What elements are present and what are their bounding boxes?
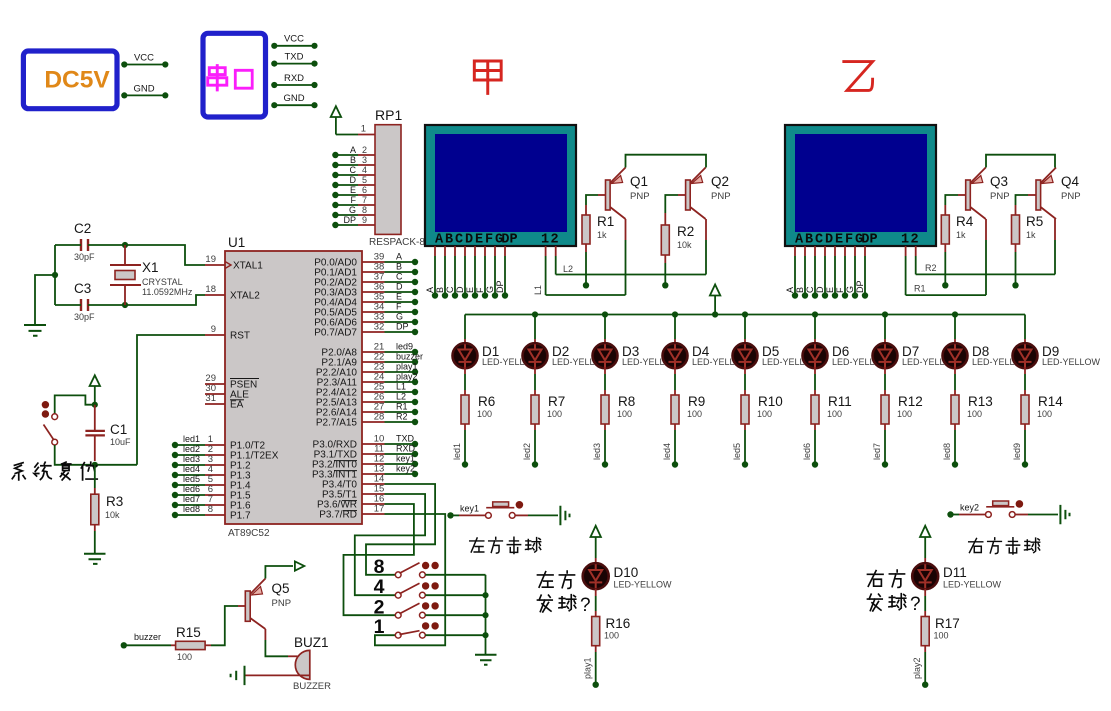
wire R1 top to Q1 base <box>585 205 587 215</box>
svg-text:key2: key2 <box>396 464 415 474</box>
7-segment display block A (jia) <box>425 125 576 246</box>
serial pin RXD wire <box>274 84 314 86</box>
wire bus to D6 <box>814 315 816 340</box>
wire node to R3 <box>94 465 96 488</box>
svg-text:D11: D11 <box>943 565 967 580</box>
display A pin G wire <box>494 246 496 256</box>
display A pin D wire <box>464 246 466 256</box>
svg-text:5: 5 <box>362 175 367 185</box>
svg-text:key1: key1 <box>460 504 479 514</box>
svg-text:P0.7/AD7: P0.7/AD7 <box>314 328 357 339</box>
RP1 pin 5 wire (net D) <box>335 184 358 186</box>
svg-text:R9: R9 <box>688 394 705 409</box>
svg-text:buzzer: buzzer <box>134 632 161 642</box>
svg-text:led8: led8 <box>942 443 952 460</box>
svg-text:8: 8 <box>208 504 213 515</box>
svg-text:PNP: PNP <box>990 191 1010 202</box>
power module DC5V box <box>23 51 117 109</box>
svg-text:17: 17 <box>374 504 385 515</box>
RP1 pin 6 wire (net E) <box>335 194 358 196</box>
svg-text:4: 4 <box>362 165 367 175</box>
U1 pin stub ALE <box>205 393 225 395</box>
svg-text:E: E <box>396 292 402 302</box>
display B pin G wire <box>854 246 856 256</box>
title jia (player A) <box>474 61 501 93</box>
svg-text:A: A <box>435 233 444 248</box>
svg-text:led4: led4 <box>662 443 672 460</box>
svg-text:28: 28 <box>374 412 385 423</box>
svg-text:GND: GND <box>133 84 154 95</box>
svg-text:100: 100 <box>1037 409 1052 419</box>
capacitor C3 <box>81 299 88 311</box>
svg-text:C3: C3 <box>74 281 91 296</box>
svg-text:play1: play1 <box>583 657 593 679</box>
svg-text:C: C <box>445 286 455 293</box>
resistor R8 body <box>601 395 609 424</box>
LED D4 (LED-YELLOW) <box>663 343 688 368</box>
svg-text:Q5: Q5 <box>272 581 290 596</box>
net buzzer start dot <box>121 642 127 648</box>
capacitor C1 <box>85 431 105 436</box>
svg-text:led9: led9 <box>1012 443 1022 460</box>
RP1 pin 9 wire (net DP) <box>335 224 358 226</box>
DIP switch SW8 dots <box>422 562 429 569</box>
wire D8 to R13 <box>954 367 956 374</box>
svg-text:A: A <box>425 287 435 293</box>
svg-text:10uF: 10uF <box>110 437 131 447</box>
svg-text:D: D <box>350 175 357 185</box>
svg-text:L2: L2 <box>396 392 406 402</box>
svg-text:E: E <box>825 287 835 293</box>
svg-text:G: G <box>396 312 403 322</box>
ground symbol (DIP) <box>475 655 497 665</box>
svg-text:C: C <box>350 165 357 175</box>
svg-text:L2: L2 <box>563 264 573 274</box>
wire pin17 to switch row 1 <box>375 514 445 645</box>
svg-text:2: 2 <box>910 233 918 248</box>
junction on bus at D8 column <box>952 311 958 317</box>
display B pin B wire <box>804 246 806 256</box>
ground symbol (crystal) <box>24 325 46 336</box>
svg-text:1k: 1k <box>956 230 966 240</box>
svg-text:E: E <box>835 233 843 248</box>
svg-text:R1: R1 <box>597 214 614 229</box>
pushbutton key1 <box>486 513 492 519</box>
svg-text:4: 4 <box>374 576 385 598</box>
svg-text:R16: R16 <box>606 616 631 631</box>
svg-text:A: A <box>785 287 795 293</box>
svg-text:led1: led1 <box>183 434 200 444</box>
display B pin DP wire <box>864 246 866 256</box>
svg-text:32: 32 <box>374 322 385 333</box>
U1 pin 24 wire (net play2) <box>362 381 385 383</box>
wire R15 to Q5 base <box>205 644 211 646</box>
microcontroller U1 body <box>225 251 362 524</box>
title yi (player B) <box>844 62 873 91</box>
svg-text:CRYSTAL: CRYSTAL <box>142 277 183 287</box>
U1 pin 10 wire (net TXD) <box>362 443 385 445</box>
pushbutton key2 <box>986 512 992 518</box>
junction reset node (C1/R3) <box>92 462 98 468</box>
svg-text:key1: key1 <box>396 454 415 464</box>
U1 pin 21 wire (net led9) <box>362 351 385 353</box>
svg-text:F: F <box>396 302 402 312</box>
svg-text:2: 2 <box>362 145 367 155</box>
display A pin E wire <box>474 246 476 256</box>
net key2 start dot <box>947 511 953 517</box>
U1 pin 12 wire (net key1) <box>362 463 385 465</box>
capacitor C2 <box>81 239 88 251</box>
wire R5 bottom end <box>1015 244 1017 252</box>
svg-text:A: A <box>795 233 804 248</box>
svg-text:U1: U1 <box>228 235 245 250</box>
svg-text:6: 6 <box>362 185 367 195</box>
reset switch <box>52 414 58 420</box>
wire R2 bottom end <box>664 255 666 263</box>
svg-text:led1: led1 <box>452 443 462 460</box>
svg-text:G: G <box>845 286 855 293</box>
wire cap left rail <box>54 245 56 305</box>
RP1 pin 7 wire (net F) <box>335 204 358 206</box>
wire bus to D5 <box>744 315 746 340</box>
serial pin VCC wire <box>274 45 314 47</box>
svg-text:R1: R1 <box>396 402 408 412</box>
junction reset top node <box>92 402 98 408</box>
svg-text:LED-YELLOW: LED-YELLOW <box>943 580 1002 590</box>
svg-text:L1: L1 <box>396 382 406 392</box>
resistor R2 body <box>661 225 669 255</box>
U1 pin 23 wire (net play1) <box>362 371 385 373</box>
svg-text:led4: led4 <box>183 464 200 474</box>
wire R1 bottom end <box>585 244 587 252</box>
wire button key1 to terminal <box>516 514 529 516</box>
svg-text:led7: led7 <box>183 494 200 504</box>
wire DIP ground bus <box>485 575 487 654</box>
RP1 pin 1 wire <box>336 134 358 136</box>
ground terminal (key1) <box>560 506 569 525</box>
svg-text:DC5V: DC5V <box>44 67 110 94</box>
LED D2 (LED-YELLOW) <box>523 343 548 368</box>
svg-text:30pF: 30pF <box>74 252 95 262</box>
wire VCC bus (horizontal rail) <box>465 314 1025 316</box>
svg-text:11.0592MHz: 11.0592MHz <box>142 287 193 297</box>
display A pin A wire <box>434 246 436 256</box>
svg-text:DP: DP <box>501 233 517 248</box>
wire R10 to net led5 <box>744 424 746 430</box>
svg-text:F: F <box>475 287 485 293</box>
display A pin C wire <box>454 246 456 256</box>
svg-text:F: F <box>485 233 493 248</box>
svg-text:RXD: RXD <box>396 444 416 454</box>
wire bus to D4 <box>674 315 676 340</box>
svg-text:P3.7/RD: P3.7/RD <box>319 510 357 521</box>
ground terminal (key2) <box>1060 505 1069 524</box>
svg-text:A: A <box>350 145 356 155</box>
svg-text:R2: R2 <box>396 412 408 422</box>
LED D5 (LED-YELLOW) <box>733 343 758 368</box>
U1 pins 1-8 wires with net dots <box>205 444 225 446</box>
wire key1 to button <box>453 514 459 516</box>
wire XTAL1 node to chip <box>125 245 205 265</box>
svg-text:100: 100 <box>687 409 702 419</box>
svg-text:C: C <box>396 272 403 282</box>
svg-text:R6: R6 <box>478 394 495 409</box>
wire Q1 collector down (net L1 column) <box>625 219 627 240</box>
U1 pin 15 stub <box>362 493 385 495</box>
wire R12 to net led7 <box>884 424 886 430</box>
display A pin DP wire <box>504 246 506 256</box>
svg-text:D: D <box>465 233 473 248</box>
wire R8 to net led3 <box>604 424 606 430</box>
svg-text:E: E <box>465 287 475 293</box>
svg-text:R2: R2 <box>677 224 694 239</box>
wire switch bottom to node <box>55 445 91 465</box>
junction on bus at D3 column <box>602 311 608 317</box>
junction XTAL2 node <box>122 302 128 308</box>
wire D4 to R9 <box>674 367 676 374</box>
svg-text:9: 9 <box>211 324 216 335</box>
svg-text:R14: R14 <box>1038 394 1063 409</box>
LED D3 (LED-YELLOW) <box>593 343 618 368</box>
svg-text:D: D <box>815 286 825 293</box>
U1 pin 34 wire (net F) <box>362 311 385 313</box>
svg-text:play2: play2 <box>912 657 922 679</box>
wire SW8 to ground bus <box>425 574 485 576</box>
wire pin14 to switch row 8 <box>366 484 435 575</box>
U1 pin stub PSEN <box>205 383 225 385</box>
DIP switch SW2 dots <box>422 602 429 609</box>
resistor R13 body <box>951 395 959 424</box>
svg-text:R11: R11 <box>828 394 852 409</box>
resistor R17 body <box>921 617 929 646</box>
crystal X1 <box>110 265 141 285</box>
transistor Q1 (PNP) <box>606 180 611 210</box>
svg-text:10k: 10k <box>105 510 120 520</box>
svg-text:G: G <box>485 286 495 293</box>
LED D7 (LED-YELLOW) <box>873 343 898 368</box>
svg-text:Q4: Q4 <box>1061 174 1080 189</box>
wire bus to D1 <box>464 315 466 340</box>
svg-text:100: 100 <box>827 409 842 419</box>
svg-text:led3: led3 <box>592 443 602 460</box>
wire D6 to R11 <box>814 367 816 374</box>
power terminal VCC (D10) <box>591 526 601 537</box>
buzzer BUZ1 <box>295 650 310 679</box>
display B pin 1 wire <box>905 246 907 256</box>
svg-text:100: 100 <box>897 409 912 419</box>
junction on bus at D6 column <box>812 311 818 317</box>
wire net R2 <box>916 273 1055 275</box>
resistor R11 body <box>811 395 819 424</box>
ground terminal (BUZ1) <box>231 666 245 685</box>
serial pin TXD wire <box>274 63 314 65</box>
wire R14 to net led9 <box>1024 424 1026 430</box>
resistor pack RP1 body <box>375 125 401 235</box>
wire C3 left <box>55 304 81 306</box>
svg-text:100: 100 <box>757 409 772 419</box>
svg-text:GND: GND <box>283 93 304 104</box>
wire buzzer to R15 <box>126 644 171 646</box>
svg-text:R7: R7 <box>548 394 565 409</box>
transistor Q3 (PNP) <box>966 180 971 210</box>
wire C2 left <box>55 244 81 246</box>
svg-text:DP: DP <box>495 280 505 293</box>
svg-text:play1: play1 <box>396 362 418 372</box>
wire net R1 <box>906 294 986 296</box>
resistor R16 body <box>592 617 600 646</box>
U1 pin 22 wire (net buzzer) <box>362 361 385 363</box>
power terminal VCC on bus <box>710 285 720 296</box>
svg-text:key2: key2 <box>960 503 979 513</box>
svg-text:EA: EA <box>230 400 244 411</box>
wire R5 top to Q4 base <box>1015 205 1017 215</box>
wire key2 to button <box>953 514 959 516</box>
wire R2 top to Q2 base <box>664 213 666 225</box>
svg-text:?: ? <box>910 594 921 615</box>
U1 pin stub EA <box>205 403 225 405</box>
wire SW1 to ground bus <box>425 634 485 636</box>
svg-text:19: 19 <box>205 254 216 265</box>
svg-text:DP: DP <box>343 215 356 225</box>
svg-text:PNP: PNP <box>630 191 650 202</box>
svg-text:D: D <box>825 233 833 248</box>
svg-text:VCC: VCC <box>284 34 304 45</box>
svg-text:R5: R5 <box>1026 214 1043 229</box>
svg-text:led6: led6 <box>183 484 200 494</box>
svg-text:BUZZER: BUZZER <box>293 681 331 692</box>
svg-text:led6: led6 <box>802 443 812 460</box>
DIP switch SW2 contacts <box>395 612 401 618</box>
display B pin A wire <box>794 246 796 256</box>
label youfang-faqiu (right serve?) <box>867 571 883 587</box>
svg-text:E: E <box>350 185 356 195</box>
wire bus to D2 <box>534 315 536 340</box>
svg-text:L1: L1 <box>533 285 543 295</box>
power terminal VCC (reset) <box>90 375 100 386</box>
svg-text:R1: R1 <box>914 284 926 294</box>
label zuofang-faqiu (left serve?) <box>537 572 553 588</box>
svg-text:B: B <box>350 155 356 165</box>
DIP switch SW4 contacts <box>395 592 401 598</box>
RP1 pin 2 wire (net A) <box>335 154 358 156</box>
resistor R14 body <box>1021 395 1029 424</box>
power terminal (Q5, right arrow) <box>295 561 304 570</box>
svg-text:2: 2 <box>550 233 558 248</box>
svg-text:C2: C2 <box>74 221 91 236</box>
wire net L1 <box>546 294 626 296</box>
svg-text:C: C <box>815 233 823 248</box>
svg-text:8: 8 <box>374 556 385 578</box>
wire bus to D3 <box>604 315 606 340</box>
resistor R10 body <box>741 395 749 424</box>
wire Q3 emitter to top rail <box>986 155 1055 168</box>
svg-text:C: C <box>455 233 463 248</box>
wire Q4 collector down (net R2 column) <box>1054 219 1056 240</box>
wire D1 to R6 <box>464 367 466 374</box>
svg-text:XTAL2: XTAL2 <box>230 291 260 302</box>
svg-text:DP: DP <box>396 322 409 332</box>
wire Q5 collector to buzzer <box>264 629 266 640</box>
svg-text:7: 7 <box>362 195 367 205</box>
serial port box <box>203 33 266 117</box>
svg-text:R4: R4 <box>956 214 974 229</box>
resistor R6 body <box>461 395 469 424</box>
svg-text:B: B <box>445 233 453 248</box>
wire pin15 to switch row 4 <box>355 494 425 595</box>
svg-text:Q2: Q2 <box>711 174 729 189</box>
svg-text:1: 1 <box>541 233 549 248</box>
svg-text:led7: led7 <box>872 443 882 460</box>
display B pin F wire <box>844 246 846 256</box>
svg-text:1: 1 <box>901 233 909 248</box>
svg-text:led9: led9 <box>396 342 413 352</box>
wire D10 to R16 <box>595 589 597 596</box>
U1 pin 11 wire (net RXD) <box>362 453 385 455</box>
wire C2 right to XTAL1 node <box>88 244 125 246</box>
wire R16 to net play1 <box>595 646 597 652</box>
label zuofang-jiqiu (left hit) <box>470 538 484 552</box>
U1 pin 25 wire (net L1) <box>362 391 385 393</box>
LED D6 (LED-YELLOW) <box>803 343 828 368</box>
DIP switch SW4 dots <box>422 582 429 589</box>
svg-text:led2: led2 <box>522 443 532 460</box>
svg-text:R12: R12 <box>898 394 923 409</box>
U1 pin 39 wire (net A) <box>362 261 385 263</box>
svg-text:8: 8 <box>362 205 367 215</box>
svg-text:PNP: PNP <box>1061 191 1081 202</box>
svg-text:PNP: PNP <box>711 191 731 202</box>
wire R4 top to Q3 base <box>944 205 946 215</box>
wire bus to D8 <box>954 315 956 340</box>
svg-text:1k: 1k <box>597 230 607 240</box>
wire R13 to net led8 <box>954 424 956 430</box>
U1 pin 14 stub <box>362 483 385 485</box>
junction XTAL1 node <box>122 242 128 248</box>
LED D8 (LED-YELLOW) <box>943 343 968 368</box>
wire RST <box>137 335 205 465</box>
svg-text:100: 100 <box>547 409 562 419</box>
wire R17 to net play2 <box>924 646 926 652</box>
display B pin 2 wire <box>915 246 917 256</box>
wire R7 to net led2 <box>534 424 536 430</box>
svg-text:C: C <box>805 286 815 293</box>
svg-text:led3: led3 <box>183 454 200 464</box>
svg-text:buzzer: buzzer <box>396 352 423 362</box>
svg-text:F: F <box>351 195 357 205</box>
svg-text:F: F <box>835 287 845 293</box>
wire R3 to ground <box>94 525 96 531</box>
svg-text:?: ? <box>580 595 591 616</box>
DC5V pin GND wire <box>124 94 165 96</box>
wire R9 to net led4 <box>674 424 676 430</box>
svg-text:E: E <box>475 233 483 248</box>
svg-text:18: 18 <box>205 284 216 295</box>
svg-text:1: 1 <box>361 124 366 135</box>
svg-text:B: B <box>396 262 402 272</box>
power terminal VCC above RP1 <box>331 106 341 117</box>
transistor Q5 (PNP) <box>245 591 250 621</box>
svg-text:D: D <box>455 286 465 293</box>
resistor R3 body <box>91 494 99 525</box>
RP1 pin 8 wire (net G) <box>335 214 358 216</box>
7-segment display block B (yi) <box>785 125 936 246</box>
junction on bus at D4 column <box>672 311 678 317</box>
svg-text:AT89C52: AT89C52 <box>228 528 270 539</box>
DC5V pin VCC wire <box>124 64 165 66</box>
svg-text:TXD: TXD <box>396 434 415 444</box>
resistor R5 body <box>1012 215 1020 244</box>
resistor R7 body <box>531 395 539 424</box>
